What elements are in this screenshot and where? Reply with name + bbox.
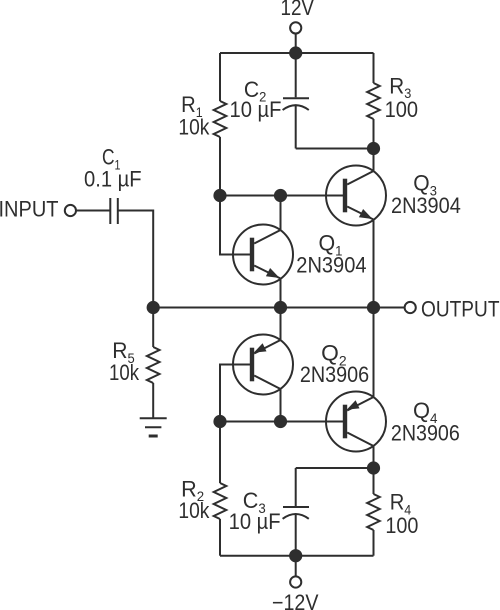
transistor Q4 circle xyxy=(326,392,386,452)
wire C3 top xyxy=(296,467,374,469)
node dot R1 bottom xyxy=(213,189,226,202)
node dot top xyxy=(289,46,302,59)
wire mid rail xyxy=(153,307,373,309)
wire bottom rail xyxy=(220,555,374,557)
svg-text:2N3904: 2N3904 xyxy=(391,193,461,218)
wire C1 to node xyxy=(118,211,153,308)
svg-text:10k: 10k xyxy=(109,360,140,385)
resistor R3 xyxy=(367,83,380,119)
wire -12V stub xyxy=(295,556,297,577)
node dot output xyxy=(367,301,380,314)
transistor Q1 xyxy=(280,196,282,231)
transistor Q2 circle xyxy=(233,335,293,395)
node dot Q1 collector xyxy=(274,189,287,202)
svg-text:10k: 10k xyxy=(178,498,210,523)
wire base bus y421 xyxy=(220,421,343,423)
svg-text:10 µF: 10 µF xyxy=(229,509,281,534)
wire R4 top xyxy=(373,468,375,494)
wire left bus upper xyxy=(219,53,221,101)
terminal 12V xyxy=(290,22,301,33)
wire Q2 base xyxy=(220,365,250,422)
wire R3 bottom xyxy=(373,119,375,149)
wire R1 bottom xyxy=(219,137,221,196)
wire Q1 base xyxy=(220,196,250,255)
node dot Q2 base bus xyxy=(213,415,226,428)
wire base bus y195 xyxy=(220,195,343,197)
svg-text:12V: 12V xyxy=(281,0,315,20)
resistor R4 xyxy=(367,494,380,530)
transistor Q3 circle xyxy=(326,166,386,226)
svg-text:10k: 10k xyxy=(178,115,210,140)
svg-text:INPUT: INPUT xyxy=(0,197,59,222)
transistor Q1 circle xyxy=(233,225,293,285)
svg-text:0.1 µF: 0.1 µF xyxy=(84,166,142,191)
wire C2 bottom xyxy=(296,148,374,150)
node dot emitters xyxy=(274,301,287,314)
wire input coupling xyxy=(76,210,110,212)
terminal INPUT xyxy=(65,205,76,216)
node dot Q4 collector xyxy=(367,461,380,474)
wire output stub xyxy=(374,307,405,309)
resistor R5 xyxy=(152,308,154,348)
svg-text:100: 100 xyxy=(385,97,419,122)
svg-text:10 µF: 10 µF xyxy=(230,97,282,122)
wire 12V stub xyxy=(295,34,297,54)
transistor Q2 xyxy=(280,308,282,341)
capacitor C1 xyxy=(109,198,111,224)
transistor Q4 xyxy=(373,308,375,398)
resistor R2 xyxy=(214,483,227,519)
svg-text:OUTPUT: OUTPUT xyxy=(421,296,500,321)
capacitor C3 xyxy=(295,468,297,506)
ground xyxy=(140,417,167,419)
svg-text:2N3904: 2N3904 xyxy=(296,253,366,278)
node dot input xyxy=(147,301,160,314)
resistor R1 xyxy=(214,101,227,137)
transistor Q3 xyxy=(373,149,375,172)
svg-text:2N3906: 2N3906 xyxy=(391,421,460,446)
wire right bus top xyxy=(373,53,375,83)
node dot C2/R3 xyxy=(367,142,380,155)
svg-text:−12V: −12V xyxy=(272,590,319,610)
svg-text:2N3906: 2N3906 xyxy=(300,362,369,387)
node dot bottom xyxy=(289,549,302,562)
terminal OUTPUT xyxy=(405,302,416,313)
wire R2 top xyxy=(219,422,221,484)
terminal -12V xyxy=(290,576,301,587)
node dot Q2 collector xyxy=(274,415,287,428)
svg-text:100: 100 xyxy=(385,513,418,538)
wire top rail xyxy=(220,52,374,54)
capacitor C2 xyxy=(295,53,297,97)
